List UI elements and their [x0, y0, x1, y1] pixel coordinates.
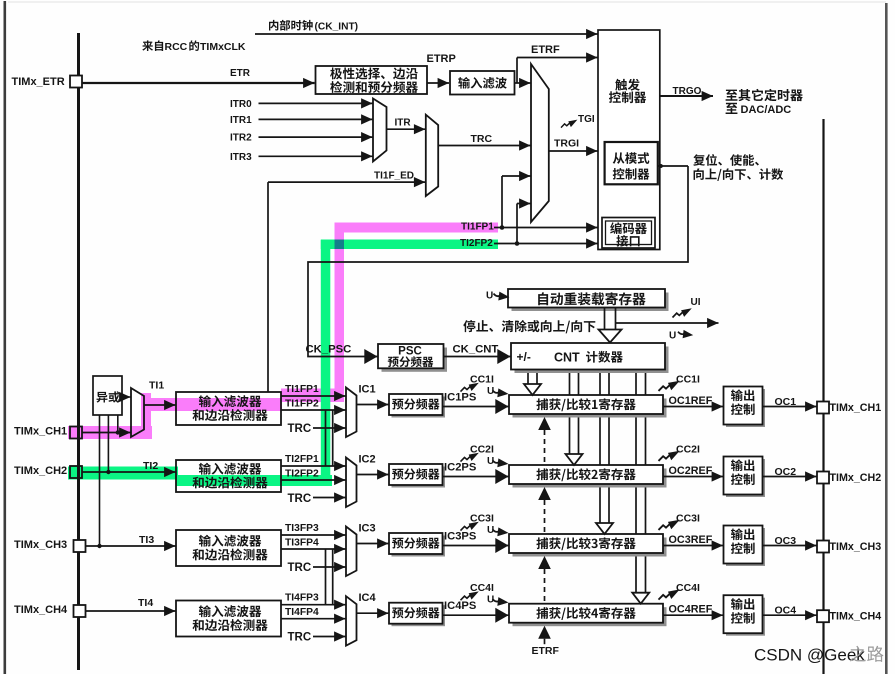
svg-text:U: U — [669, 331, 676, 342]
svg-text:OC1REF: OC1REF — [669, 395, 713, 407]
svg-text:U: U — [487, 595, 494, 606]
svg-text:TRC: TRC — [288, 493, 312, 505]
svg-text:U: U — [487, 456, 494, 467]
svg-text:CC3I: CC3I — [676, 513, 700, 525]
svg-text:ETRF: ETRF — [532, 645, 560, 657]
svg-text:DAC/ADC: DAC/ADC — [741, 104, 792, 116]
svg-text:ITR2: ITR2 — [230, 133, 252, 144]
svg-text:+/-: +/- — [517, 350, 531, 364]
svg-text:TI2FP2: TI2FP2 — [285, 469, 319, 480]
svg-text:CC2I: CC2I — [676, 444, 700, 456]
svg-text:TRGI: TRGI — [554, 138, 579, 150]
svg-text:TIMxCLK: TIMxCLK — [200, 41, 246, 53]
svg-text:TIMx_ETR: TIMx_ETR — [12, 76, 65, 88]
svg-text:IC4PS: IC4PS — [444, 600, 477, 612]
svg-text:TRC: TRC — [288, 423, 312, 435]
svg-text:ETR: ETR — [230, 68, 251, 79]
svg-text:CC2I: CC2I — [470, 444, 494, 456]
svg-text:TI1FP1: TI1FP1 — [285, 384, 319, 395]
svg-text:TI2FP2: TI2FP2 — [460, 238, 493, 249]
svg-text:TRC: TRC — [288, 632, 312, 644]
svg-text:ITR0: ITR0 — [230, 99, 252, 110]
svg-text:TIMx_CH2: TIMx_CH2 — [830, 472, 882, 484]
svg-text:TI3: TI3 — [139, 534, 154, 546]
svg-text:IC1PS: IC1PS — [444, 392, 477, 404]
svg-text:ETRP: ETRP — [427, 53, 456, 65]
svg-text:IC1: IC1 — [359, 384, 376, 396]
svg-text:TIMx_CH4: TIMx_CH4 — [830, 611, 882, 623]
svg-text:IC3: IC3 — [359, 523, 376, 535]
svg-text:TI2FP1: TI2FP1 — [285, 454, 319, 465]
svg-text:CK_CNT: CK_CNT — [453, 343, 499, 355]
svg-text:TI1FP1: TI1FP1 — [461, 222, 494, 233]
svg-text:CC1I: CC1I — [676, 374, 700, 386]
svg-text:TI4FP4: TI4FP4 — [285, 607, 319, 618]
svg-text:CK_PSC: CK_PSC — [306, 344, 352, 356]
svg-text:TI1: TI1 — [149, 380, 164, 392]
svg-text:TRGO: TRGO — [673, 86, 702, 97]
svg-text:ITR3: ITR3 — [230, 152, 252, 163]
svg-text:IC2PS: IC2PS — [444, 462, 477, 474]
svg-text:TI4: TI4 — [138, 597, 153, 609]
svg-text:OC2REF: OC2REF — [669, 465, 713, 477]
svg-text:TIMx_CH3: TIMx_CH3 — [14, 539, 67, 551]
svg-text:(CK_INT): (CK_INT) — [315, 22, 359, 33]
svg-text:TI3FP4: TI3FP4 — [285, 538, 319, 549]
svg-text:CC4I: CC4I — [470, 582, 494, 594]
svg-text:UI: UI — [691, 297, 701, 308]
svg-text:CC4I: CC4I — [676, 582, 700, 594]
svg-text:OC4: OC4 — [775, 605, 797, 617]
svg-text:OC2: OC2 — [775, 466, 797, 478]
svg-text:CNT: CNT — [554, 351, 580, 365]
svg-text:CSDN @Geek: CSDN @Geek — [754, 646, 865, 665]
svg-text:U: U — [487, 525, 494, 536]
svg-text:TIMx_CH2: TIMx_CH2 — [14, 465, 67, 477]
svg-text:TIMx_CH4: TIMx_CH4 — [14, 604, 68, 616]
svg-text:ETRF: ETRF — [531, 44, 560, 56]
svg-text:TRC: TRC — [471, 133, 493, 145]
svg-text:ITR1: ITR1 — [230, 115, 252, 126]
svg-text:IC4: IC4 — [359, 592, 377, 604]
svg-text:OC1: OC1 — [775, 396, 797, 408]
svg-text:TI4FP3: TI4FP3 — [285, 593, 319, 604]
svg-text:TGI: TGI — [578, 114, 595, 125]
svg-text:TI2: TI2 — [143, 460, 158, 472]
svg-text:TIMx_CH3: TIMx_CH3 — [830, 541, 882, 553]
svg-text:ITR: ITR — [395, 118, 412, 129]
svg-text:OC4REF: OC4REF — [669, 604, 713, 616]
svg-text:TI1F_ED: TI1F_ED — [374, 171, 414, 182]
svg-text:TIMx_CH1: TIMx_CH1 — [830, 402, 882, 414]
svg-text:U: U — [486, 291, 493, 302]
svg-text:TI3FP3: TI3FP3 — [285, 523, 319, 534]
svg-text:IC2: IC2 — [359, 454, 376, 466]
svg-text:TRC: TRC — [288, 562, 312, 574]
svg-text:IC3PS: IC3PS — [444, 531, 477, 543]
svg-text:RCC: RCC — [165, 41, 188, 53]
svg-text:CC3I: CC3I — [470, 513, 494, 525]
svg-text:U: U — [487, 386, 494, 397]
svg-text:CC1I: CC1I — [470, 374, 494, 386]
svg-text:OC3: OC3 — [775, 535, 797, 547]
svg-text:TI1FP2: TI1FP2 — [285, 399, 319, 410]
svg-text:TIMx_CH1: TIMx_CH1 — [14, 426, 67, 438]
svg-text:PSC: PSC — [398, 346, 422, 358]
svg-text:OC3REF: OC3REF — [669, 534, 713, 546]
